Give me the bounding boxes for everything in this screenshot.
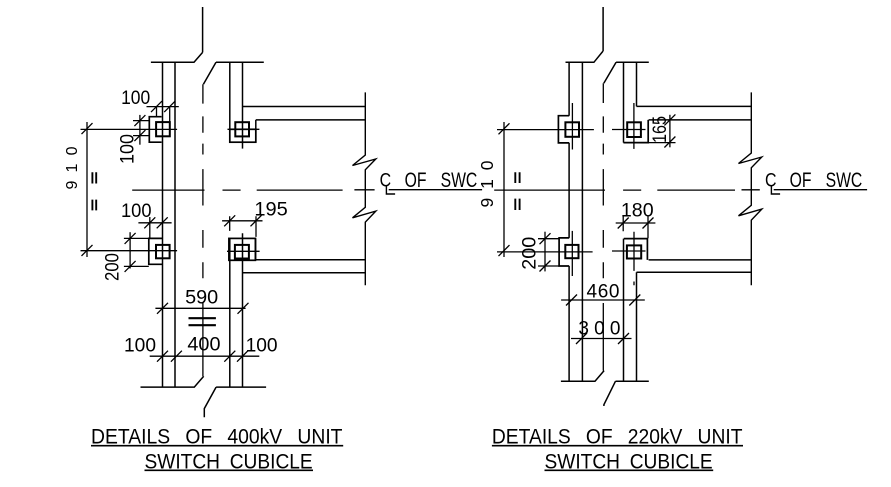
column flange line right-outer lower	[242, 233, 244, 387]
broken-dimension mark	[189, 318, 216, 325]
bolt bottom-right centreline vertical	[633, 232, 635, 286]
centreline symbol L stroke	[386, 185, 395, 194]
column flange line right-inner	[623, 62, 625, 381]
svg-text:910: 910	[64, 146, 81, 189]
bolt top-left centreline	[81, 128, 178, 130]
svg-text:165: 165	[650, 116, 671, 143]
equality mark lower	[92, 200, 96, 211]
horizontal centre line dashed	[132, 189, 374, 191]
dimension 100 vertical extensions	[133, 121, 150, 136]
dimension 100 bottom-left ticks	[144, 217, 167, 228]
bolt top-left centreline vertical	[571, 103, 573, 150]
title underline 2	[145, 469, 314, 471]
svg-text:DETAILS OF 400kV UNIT: DETAILS OF 400kV UNIT	[91, 423, 343, 448]
dimension 590 ticks	[157, 303, 249, 314]
SWC beam top flange lower	[256, 119, 365, 121]
svg-text:195: 195	[254, 200, 287, 221]
dimension 180 extensions	[623, 216, 648, 238]
column flange line left-outer segments	[568, 62, 570, 381]
dimension 910 line	[86, 122, 88, 257]
SWC beam top flange upper	[637, 105, 752, 107]
dimension 180 line	[616, 222, 656, 224]
dimension 460 ticks	[566, 295, 640, 306]
svg-text:400: 400	[187, 335, 220, 356]
bolt plate top-right	[230, 129, 256, 142]
svg-text:590: 590	[185, 287, 218, 308]
dimension 910 tick bottom	[82, 245, 93, 256]
bolt plate bottom-right step	[624, 239, 648, 260]
svg-text:100: 100	[121, 201, 152, 222]
vertical centre line dashed	[602, 83, 604, 370]
dimension 195 ticks	[224, 215, 261, 226]
equality mark upper	[92, 172, 96, 183]
bolt plate bottom-left	[149, 238, 162, 264]
dimension 195 extensions	[230, 216, 256, 237]
column flange line left-inner	[174, 62, 176, 387]
bolt top-right centreline	[228, 128, 260, 130]
bolt bottom-left inner square	[565, 245, 578, 258]
bolt top-right centreline	[612, 129, 646, 131]
dimension 100 top ticks	[151, 101, 175, 112]
SWC beam bottom flange upper	[649, 259, 752, 261]
bottom chord line with S-break	[141, 376, 267, 417]
dimension 200 ticks right	[540, 233, 551, 271]
svg-text:100: 100	[121, 88, 150, 109]
dimension 100 vertical ticks	[134, 115, 145, 141]
dimension 200 ticks	[125, 233, 136, 272]
dimension 100 top extension lines	[157, 107, 170, 123]
dimension 165 ticks	[664, 114, 675, 147]
dimension 300 ticks	[576, 333, 629, 344]
bolt plate bottom-left step	[559, 238, 569, 266]
svg-text:100: 100	[246, 335, 278, 356]
bolt plate top-right step	[624, 120, 649, 143]
svg-text:200: 200	[102, 253, 123, 281]
dimension 400 line	[150, 355, 260, 357]
column flange line right-inner upper	[229, 62, 231, 129]
dimension 200 extensions right	[538, 239, 559, 266]
bolt bottom-right centreline	[227, 250, 260, 252]
dimension 200 line right	[544, 232, 546, 272]
bolt top-right inner square	[235, 122, 249, 136]
bolt top-right centreline vertical	[633, 103, 635, 149]
title underline 1 right	[492, 445, 743, 447]
top chord line with S-break	[566, 7, 649, 83]
bolt top-right inner square	[627, 122, 641, 137]
bolt top-left inner square	[565, 122, 579, 137]
column flange line right-inner lower	[229, 238, 231, 387]
bolt top-left inner square	[156, 122, 170, 136]
bolt bottom-left centreline	[497, 251, 593, 253]
vertical centre line dashed	[202, 84, 204, 376]
bolt bottom-right inner square	[235, 245, 249, 259]
centreline symbol L stroke right	[771, 185, 780, 194]
dimension 100 vertical line	[139, 115, 141, 145]
dimension 165 line	[669, 115, 671, 148]
dimension 100 bottom-left extension	[149, 217, 151, 238]
SWC beam bottom flange lower	[243, 272, 366, 274]
equality mark upper right	[515, 172, 519, 183]
svg-text:180: 180	[621, 201, 654, 222]
dimension 200 line	[129, 232, 131, 268]
break line with zigzags	[353, 92, 376, 285]
bolt top-left centreline	[497, 129, 594, 131]
plate extension line for 165	[623, 142, 675, 144]
dimension 195 line	[222, 220, 262, 222]
SWC beam bottom flange upper	[256, 259, 366, 261]
top chord line with S-break	[151, 7, 264, 84]
bottom chord line with S-break	[561, 371, 649, 406]
dimension 200 extensions	[124, 238, 149, 266]
dimension 100 top line	[147, 106, 179, 108]
svg-text:100: 100	[124, 335, 156, 356]
SWC beam bottom flange lower	[637, 271, 752, 273]
dimension 300 line	[571, 338, 632, 340]
svg-text:200: 200	[519, 237, 540, 270]
bolt bottom-right centreline	[612, 250, 646, 252]
bolt bottom-left centreline vertical	[571, 231, 573, 276]
beam step vertical bottom-right	[255, 238, 257, 259]
title underline 2 right	[545, 469, 714, 471]
svg-text:100: 100	[118, 134, 139, 164]
dimension 590 line	[155, 307, 245, 309]
dimension 180 ticks	[618, 218, 654, 229]
equality mark lower right	[515, 199, 519, 210]
centreline underline right	[774, 189, 867, 191]
column flange line left-outer	[162, 62, 164, 387]
dimension 910 line right	[503, 122, 505, 257]
dimension 400 ticks	[157, 351, 248, 362]
SWC beam top flange upper	[243, 106, 366, 108]
bolt plate bottom-right	[229, 238, 256, 260]
bolt plate top-left	[149, 117, 161, 143]
bolt bottom-right inner square	[627, 245, 641, 258]
svg-text:C: C	[380, 169, 392, 191]
dimension 460 line	[561, 299, 645, 301]
svg-text:OF SWC: OF SWC	[790, 169, 863, 192]
beam step vertical top-right	[255, 120, 257, 142]
dimension 910 tick top	[82, 123, 93, 134]
title underline 1	[91, 445, 343, 447]
svg-text:OF SWC: OF SWC	[405, 169, 478, 192]
svg-text:300: 300	[578, 318, 620, 339]
bolt bottom-left inner square	[156, 245, 170, 258]
column flange line right-outer	[636, 62, 638, 381]
break line with zigzags	[739, 92, 762, 285]
bolt bottom-left centreline	[81, 250, 178, 252]
column flange line left-inner	[581, 62, 583, 381]
column flange line right-outer upper	[242, 62, 244, 148]
dimension 100 bottom-left line	[138, 222, 171, 224]
svg-text:910: 910	[477, 160, 497, 207]
svg-text:DETAILS OF 220kV UNIT: DETAILS OF 220kV UNIT	[492, 423, 743, 448]
dimension 910 ticks right	[499, 123, 510, 256]
centreline underline	[389, 189, 482, 191]
horizontal centre line dashed	[494, 189, 760, 191]
bolt plate top-left step	[558, 116, 569, 143]
svg-text:460: 460	[587, 282, 620, 303]
SWC beam top flange lower	[649, 119, 752, 121]
